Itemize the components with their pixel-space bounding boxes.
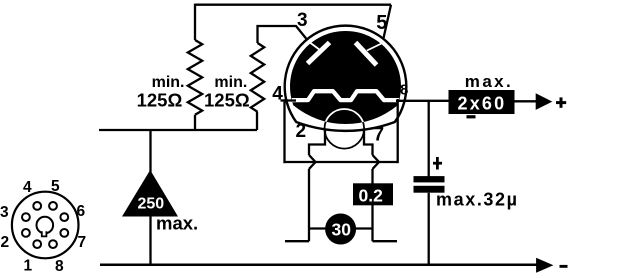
- pin label 5: [376, 12, 387, 34]
- svg-text:30: 30: [332, 219, 352, 239]
- wire left resistor bottom lead: [194, 115, 196, 130]
- anode plate (pin 3 side): [308, 43, 330, 64]
- svg-text:6: 6: [77, 203, 86, 220]
- wire right resistor bottom lead: [256, 112, 258, 130]
- svg-text:min.: min.: [152, 74, 185, 91]
- output arrow + terminal: [536, 93, 553, 110]
- anode plate (pin 5 side): [356, 43, 377, 66]
- wire 30 left stub: [309, 227, 328, 229]
- socket pin 8: [49, 240, 57, 248]
- svg-text:250: 250: [138, 196, 165, 213]
- heater filament circle (lower black part): [325, 109, 365, 149]
- socket pin 1: [33, 240, 41, 248]
- pin label 7: [374, 124, 385, 145]
- socket pin label 1: [24, 258, 33, 275]
- wire C1 bottom lead: [428, 193, 430, 265]
- label + polarity of C1: [433, 162, 442, 165]
- svg-text:2x60: 2x60: [458, 93, 507, 113]
- socket pin 3: [22, 213, 30, 221]
- svg-text:125Ω: 125Ω: [137, 90, 183, 111]
- svg-text:5: 5: [376, 12, 387, 34]
- socket pin 7: [60, 229, 68, 237]
- wire strap rail pins 4-8: [283, 161, 397, 163]
- svg-text:3: 3: [0, 204, 9, 221]
- wire left resistor top lead: [194, 4, 196, 40]
- socket pin 4: [33, 202, 41, 210]
- wire pin 4 vertical: [283, 99, 285, 163]
- wire input rail A: [99, 129, 257, 131]
- socket pin label 4: [23, 179, 32, 196]
- cathode (double hump line): [292, 91, 399, 100]
- svg-text:3: 3: [297, 10, 308, 31]
- wire heater lead right (pin 7): [364, 130, 373, 155]
- wire top rail (anode supply): [195, 4, 391, 6]
- svg-text:8: 8: [55, 258, 64, 275]
- socket pin label 2: [1, 234, 10, 251]
- svg-text:max.: max.: [156, 213, 198, 234]
- wire pin 8 lead to output: [396, 100, 449, 102]
- wire crossover hop right: [373, 155, 380, 169]
- svg-text:5: 5: [51, 178, 60, 195]
- socket pin label 6: [77, 203, 86, 220]
- tube V1 envelope outline: [285, 26, 407, 131]
- svg-text:min.: min.: [214, 74, 247, 91]
- voltage indicator 250 V max (triangle): [122, 170, 178, 217]
- wire box to output arrow: [515, 100, 538, 102]
- svg-text:125Ω: 125Ω: [204, 90, 250, 111]
- capacitor C1 reservoir plate bottom: [414, 186, 445, 193]
- value label min. 125 ohm (R2): [204, 74, 250, 111]
- capacitor C1 reservoir plate top: [414, 176, 445, 182]
- socket pin label 3: [0, 204, 9, 221]
- svg-text:max.: max.: [465, 72, 513, 91]
- socket pin label 5: [51, 178, 60, 195]
- current rating box max 2x60: [449, 90, 515, 114]
- output arrow - terminal: [536, 258, 553, 273]
- wire bottom rail (negative): [100, 263, 537, 266]
- pin label 2: [296, 121, 307, 142]
- svg-text:8: 8: [400, 82, 408, 99]
- tube V1 inner disc: [290, 31, 401, 124]
- svg-text:1: 1: [24, 258, 33, 275]
- wire heater winding stub left: [285, 240, 309, 242]
- svg-text:0.2: 0.2: [359, 185, 384, 205]
- wire top rail to pin 5: [382, 5, 392, 47]
- value label max. 32 uF: [436, 190, 519, 210]
- svg-text:7: 7: [374, 124, 385, 145]
- socket pin label 7: [78, 234, 87, 251]
- capacitor C2 value 0.2 (black box): [353, 183, 393, 205]
- wire R2 to pin 3: [258, 26, 314, 47]
- wire pin 4 lead: [281, 99, 297, 101]
- socket center spigot: [37, 217, 54, 234]
- socket pin 5: [49, 202, 57, 210]
- wire heater lead right lower: [371, 169, 373, 241]
- wire heater winding stub right: [373, 240, 398, 242]
- resistor R1 (min. 125 ohm, left): [188, 40, 202, 115]
- pin label 3: [297, 10, 308, 31]
- svg-text:7: 7: [78, 234, 87, 251]
- wire heater lead left (pin 2): [309, 130, 325, 155]
- svg-text:max.32µ: max.32µ: [436, 190, 519, 210]
- svg-text:2: 2: [296, 121, 307, 142]
- resistor R2 (min. 125 ohm, right): [251, 43, 264, 112]
- socket pin 2: [22, 229, 30, 237]
- svg-text:4: 4: [23, 179, 32, 196]
- wire triangle drop upper: [149, 130, 151, 172]
- pin label 8: [400, 82, 408, 99]
- wire output junction vertical: [428, 100, 430, 177]
- wire triangle drop lower: [149, 217, 151, 265]
- value label min. 125 ohm (R1): [137, 74, 185, 111]
- heater indicator 30 (black circle): [325, 214, 356, 245]
- pin label 4: [272, 83, 283, 104]
- print artifact tick below box: [467, 115, 476, 118]
- socket key notch: [42, 231, 47, 236]
- wire 30 right stub: [354, 227, 373, 229]
- svg-text:2: 2: [1, 234, 10, 251]
- wire pin 8 vertical: [397, 99, 399, 163]
- wire pin 5 continuation on disc (white): [367, 44, 382, 51]
- socket pin label 8: [55, 258, 64, 275]
- socket base outline (bottom view): [12, 192, 79, 259]
- wire crossover hop left: [309, 155, 316, 169]
- socket pin 6: [60, 213, 68, 221]
- wire heater lead left lower: [308, 169, 310, 241]
- wire pin 3 continuation on disc (white): [309, 42, 323, 52]
